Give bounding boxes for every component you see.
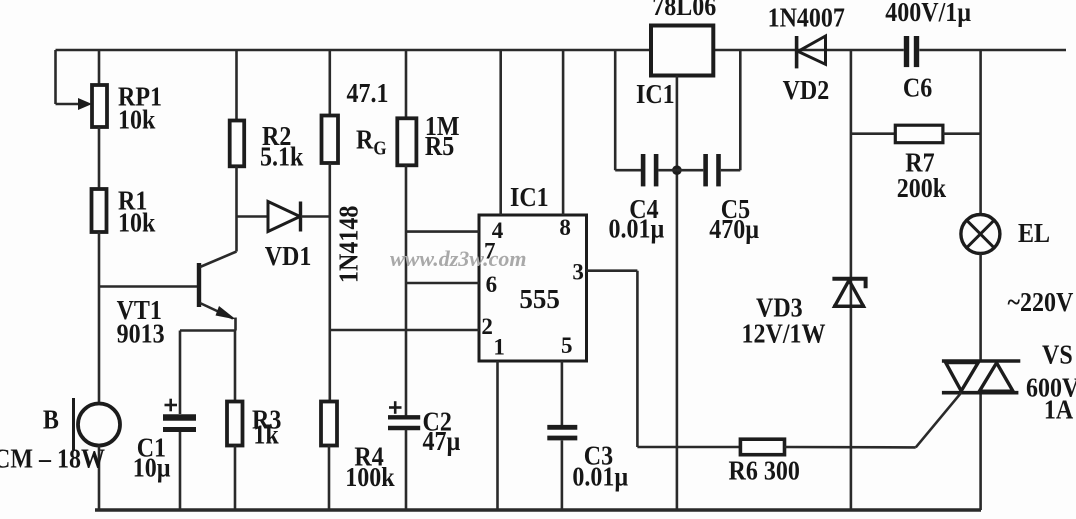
svg-text:10k: 10k: [118, 104, 156, 135]
svg-text:12V/1W: 12V/1W: [742, 318, 826, 349]
svg-text:R6 300: R6 300: [729, 455, 800, 486]
svg-text:10k: 10k: [118, 207, 156, 238]
svg-text:5.1k: 5.1k: [260, 141, 304, 172]
svg-text:CM – 18W: CM – 18W: [0, 443, 105, 474]
svg-text:VD1: VD1: [265, 240, 312, 271]
svg-text:1N4148: 1N4148: [333, 206, 364, 283]
svg-text:47.1: 47.1: [347, 77, 389, 108]
svg-text:www.dz3w.com: www.dz3w.com: [390, 246, 527, 271]
svg-text:5: 5: [561, 333, 573, 358]
svg-text:VD2: VD2: [783, 74, 830, 105]
svg-text:2: 2: [481, 314, 493, 339]
svg-text:C6: C6: [903, 72, 932, 103]
svg-text:6: 6: [486, 272, 498, 297]
svg-text:VS: VS: [1042, 339, 1073, 370]
svg-text:10µ: 10µ: [133, 452, 171, 483]
svg-text:3: 3: [572, 260, 584, 285]
svg-text:1k: 1k: [253, 419, 279, 450]
svg-text:8: 8: [559, 215, 571, 240]
svg-text:IC1: IC1: [510, 181, 549, 212]
svg-text:R5: R5: [425, 130, 454, 161]
svg-text:555: 555: [519, 284, 560, 314]
svg-text:0.01µ: 0.01µ: [572, 461, 628, 492]
svg-text:100k: 100k: [345, 461, 395, 492]
svg-text:47µ: 47µ: [423, 425, 461, 456]
svg-text:IC1: IC1: [636, 78, 675, 109]
svg-text:0.01µ: 0.01µ: [609, 213, 665, 244]
svg-text:470µ: 470µ: [709, 213, 759, 244]
svg-text:9013: 9013: [117, 318, 165, 349]
svg-text:1N4007: 1N4007: [768, 2, 845, 33]
svg-text:200k: 200k: [897, 172, 947, 203]
svg-text:EL: EL: [1018, 217, 1050, 248]
svg-text:B: B: [43, 404, 59, 435]
svg-text:78L06: 78L06: [652, 0, 716, 21]
svg-text:~220V: ~220V: [1008, 286, 1074, 317]
svg-text:1: 1: [493, 335, 505, 360]
svg-text:1A: 1A: [1044, 394, 1074, 425]
svg-text:400V/1µ: 400V/1µ: [885, 0, 971, 27]
